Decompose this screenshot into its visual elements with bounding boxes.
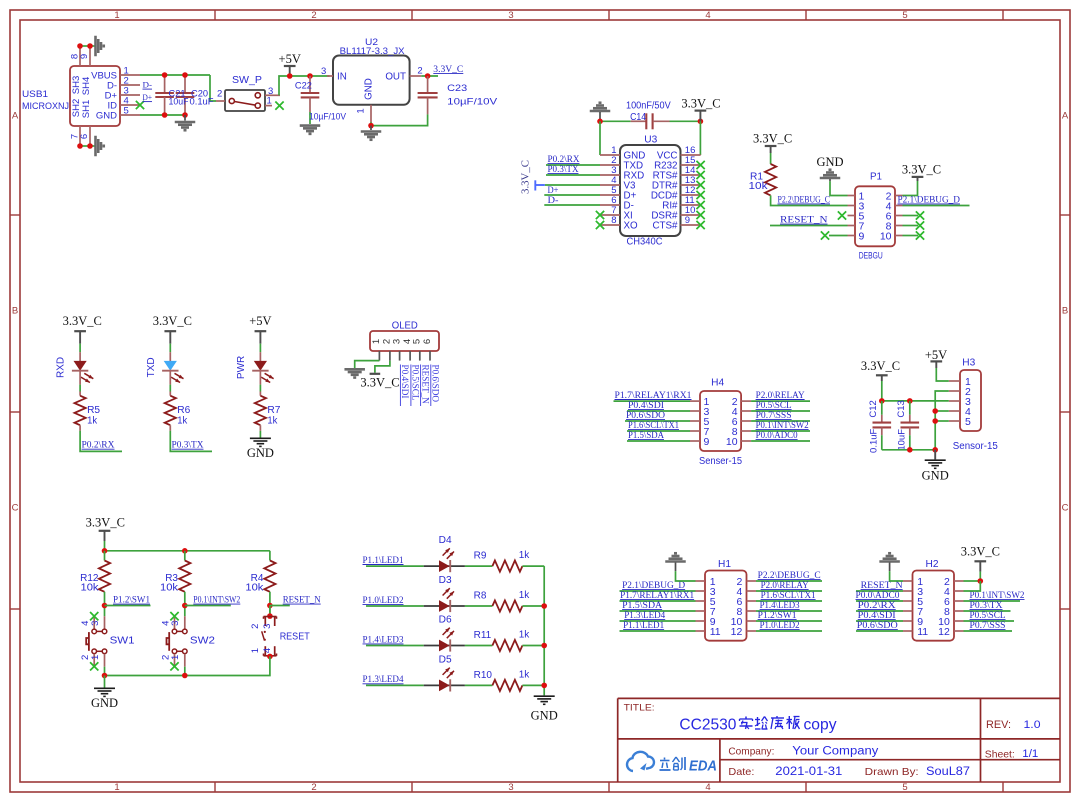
svg-text:C12: C12 xyxy=(868,400,879,417)
U3 pin 10 DSR# xyxy=(681,214,701,216)
svg-text:SW2: SW2 xyxy=(190,635,216,646)
LED TXD xyxy=(169,352,171,361)
svg-text:1: 1 xyxy=(267,96,272,107)
svg-text:11: 11 xyxy=(710,626,721,638)
wire net to LED D6 xyxy=(366,645,424,647)
wire H2 pin 3 xyxy=(856,590,903,592)
H4 pin 4 xyxy=(741,410,751,412)
frame row ticks right xyxy=(1060,214,1070,216)
svg-text:1: 1 xyxy=(250,648,261,653)
junction H2 pin2 xyxy=(978,578,984,584)
P1 pin 6 xyxy=(895,215,903,217)
svg-text:Sheet:: Sheet: xyxy=(985,749,1015,761)
junction pin7 bottom xyxy=(77,143,83,149)
wire net to LED D4 xyxy=(366,565,424,567)
svg-text:1: 1 xyxy=(114,10,119,21)
resistor R10 xyxy=(492,680,522,691)
wire H2 pin 10 xyxy=(964,620,1015,622)
OLED pin 3 xyxy=(399,351,401,361)
H4 pin 1 xyxy=(690,400,700,402)
svg-text:+5V: +5V xyxy=(279,52,301,66)
svg-text:R10: R10 xyxy=(474,670,493,681)
H1 pin 1 xyxy=(696,580,706,582)
frame column ticks bottom xyxy=(214,782,216,792)
svg-text:DEBGU: DEBGU xyxy=(859,250,883,261)
svg-text:2: 2 xyxy=(417,66,422,77)
wire R1 top xyxy=(770,153,772,164)
wire net stub P1.2\SW1 xyxy=(105,605,151,607)
wire H1 pin 9 xyxy=(620,620,696,622)
svg-text:R9: R9 xyxy=(474,551,487,562)
wire flag to LED TXD xyxy=(169,344,171,352)
H4 pin 7 xyxy=(690,430,700,432)
wire R4 bottom xyxy=(269,592,271,616)
no-connect X SW2 pin4 xyxy=(170,612,178,620)
SW_P pin 3 xyxy=(265,94,280,96)
U3 pin 15 R232 xyxy=(681,164,701,166)
H1 pin 10 xyxy=(747,620,757,622)
svg-text:Sensor-15: Sensor-15 xyxy=(953,441,998,452)
wire P1 pin7 RESET_N xyxy=(770,225,848,227)
wire H1 pin 3 xyxy=(620,590,696,592)
capacitor C12 xyxy=(881,401,883,415)
junction net P1.2\SW1 xyxy=(102,603,108,609)
OLED pin 1 xyxy=(378,351,380,361)
wire H2 pin 7 xyxy=(856,610,903,612)
svg-text:3: 3 xyxy=(508,782,513,793)
svg-text:2: 2 xyxy=(311,782,316,793)
wire SW_P pin3 to +5V rail xyxy=(279,76,330,95)
wire OLED pin2 to 3.3V_C xyxy=(375,361,390,373)
svg-text:B: B xyxy=(12,306,18,317)
OLED pin 5 xyxy=(419,351,421,361)
svg-text:1k: 1k xyxy=(177,415,188,426)
no-connect X P1 right y235.5 xyxy=(916,231,924,239)
svg-text:3.3V_C: 3.3V_C xyxy=(753,132,792,146)
svg-text:RESET: RESET xyxy=(280,631,310,642)
wire net to LED D3 xyxy=(366,605,424,607)
wire gnd to H1 pin1 xyxy=(676,571,696,581)
junction pin8 top xyxy=(77,43,83,49)
H2 pin 10 xyxy=(954,620,964,622)
wire U2 OUT to 3.3V_C xyxy=(421,75,438,77)
H2 pin 3 xyxy=(903,590,913,592)
wire H4 pin 9 xyxy=(627,440,690,442)
no-connect X U3 pin 15 xyxy=(696,161,704,169)
U2 pin 3 IN xyxy=(327,75,333,77)
switch SW2 bottom contacts xyxy=(172,649,177,654)
svg-text:A: A xyxy=(12,111,19,122)
svg-text:2: 2 xyxy=(250,624,261,629)
ground flag below C22 xyxy=(300,124,321,127)
resistor R11 xyxy=(492,640,522,651)
ground symbol below SW1 xyxy=(104,676,106,688)
svg-text:1.0: 1.0 xyxy=(1024,719,1041,731)
no-connect X on USB1 pin 4 ID xyxy=(136,101,144,109)
junction LED rail D5 xyxy=(541,683,547,689)
H1 pin 4 xyxy=(747,590,757,592)
power flag 3.3V_C above U3 VCC xyxy=(695,109,707,111)
SW_P pin 1 xyxy=(265,105,272,107)
resistor R9 xyxy=(492,561,522,572)
LED D6 xyxy=(424,645,465,647)
wire C23 bottom to U2 GND xyxy=(371,114,428,125)
switch SW1 pin4 lead xyxy=(93,616,95,629)
ground flag bottom shield xyxy=(94,136,97,157)
wire R11 to rail xyxy=(522,645,544,647)
H1 pin 2 xyxy=(747,580,757,582)
svg-text:3.3V_C: 3.3V_C xyxy=(961,544,1000,558)
H2 pin 2 xyxy=(954,580,964,582)
U2 pin 2 OUT xyxy=(410,75,422,77)
wire RESET_N stub xyxy=(270,605,290,607)
svg-text:D5: D5 xyxy=(439,654,452,665)
ground symbol below R7 xyxy=(250,437,271,439)
switch SW_P body xyxy=(225,90,265,111)
LED D4 xyxy=(424,565,465,567)
svg-text:D+: D+ xyxy=(548,186,559,196)
wire H2 pin 6 xyxy=(964,600,1021,602)
wire rail corner to R4 xyxy=(269,551,271,561)
svg-text:4: 4 xyxy=(705,782,710,793)
junction U2 GND xyxy=(368,123,374,129)
wire H1 pin 8 xyxy=(756,610,822,612)
wire +5V to H3 pin1 xyxy=(936,368,949,381)
svg-text:Date:: Date: xyxy=(728,766,754,778)
svg-text:1k: 1k xyxy=(519,669,531,680)
wire H1 pin 10 xyxy=(756,620,822,622)
junction gnd rail xyxy=(932,447,938,453)
U3 pin 14 RTS# xyxy=(681,174,701,176)
svg-text:D3: D3 xyxy=(439,575,452,586)
title block border xyxy=(617,698,619,782)
svg-text:REV:: REV: xyxy=(986,719,1011,731)
P1 pin 10 xyxy=(895,235,903,237)
USB1 pin 4 ID xyxy=(120,104,140,106)
switch SW2 pin2 lead xyxy=(174,654,176,666)
H2 pin 5 xyxy=(903,600,913,602)
no-connect X U3 pin 12 xyxy=(696,191,704,199)
svg-text:1/1: 1/1 xyxy=(1022,748,1038,760)
wire LED D6 to R11 xyxy=(465,645,493,647)
wire R12 bottom xyxy=(104,592,106,616)
capacitor C13 xyxy=(909,401,911,415)
svg-text:RESET_N: RESET_N xyxy=(420,365,430,405)
USB1 pin 7 xyxy=(79,126,81,146)
svg-text:CC2530: CC2530 xyxy=(679,717,736,734)
switch RESET actuator xyxy=(264,631,266,633)
svg-text:3.3V_C: 3.3V_C xyxy=(520,160,532,194)
H2 pin 4 xyxy=(954,590,964,592)
junction SW2 bottom xyxy=(182,673,188,679)
H3 pin 3 xyxy=(949,400,960,402)
wire P1 right stub y235.5 xyxy=(903,235,919,237)
svg-text:P1: P1 xyxy=(870,172,882,183)
resistor R12 xyxy=(99,561,110,592)
SW_P pin 2 xyxy=(216,100,225,102)
junction pin6 bottom xyxy=(87,143,93,149)
U3 pin 5 D+ xyxy=(600,194,620,196)
H2 pin 1 xyxy=(903,580,913,582)
svg-text:10k: 10k xyxy=(749,181,769,192)
wire 3.3V_C to P1 pin2 xyxy=(903,181,918,196)
ground flag left of C14 xyxy=(590,110,611,113)
switch SW_P contacts xyxy=(229,98,234,103)
USB1 pin 2 D- xyxy=(120,84,140,86)
U3 pin 1 GND xyxy=(600,154,620,156)
H4 pin 2 xyxy=(741,400,751,402)
svg-text:1: 1 xyxy=(170,655,181,660)
svg-text:5: 5 xyxy=(902,782,907,793)
H1 pin 12 xyxy=(747,630,757,632)
switch SW2 pin3 lead xyxy=(184,616,186,628)
svg-text:SH1: SH1 xyxy=(81,100,92,118)
wire H4 pin 4 xyxy=(751,410,810,412)
capacitor C22 xyxy=(309,76,311,93)
svg-text:1: 1 xyxy=(371,339,382,344)
wire U3 TXD xyxy=(546,164,600,166)
no-connect X U3 pin 10 xyxy=(696,211,704,219)
svg-text:1k: 1k xyxy=(267,415,278,426)
wire H4 pin 7 xyxy=(627,430,690,432)
resistor R4 xyxy=(264,561,275,592)
junction C14 left xyxy=(597,119,603,125)
wire VBUS rail xyxy=(140,74,210,76)
ground flag top shield xyxy=(94,36,97,57)
wire switch top rail xyxy=(105,550,270,552)
svg-text:1k: 1k xyxy=(87,415,98,426)
wire 3.3V rail to H3 pin3 xyxy=(882,400,949,402)
svg-text:SouL87: SouL87 xyxy=(926,766,970,778)
LED D3 xyxy=(424,605,465,607)
svg-text:1k: 1k xyxy=(519,630,531,641)
logo LCEDA cloud icon xyxy=(627,752,654,771)
svg-text:3: 3 xyxy=(170,621,181,626)
svg-text:1: 1 xyxy=(90,655,101,660)
svg-text:C: C xyxy=(1062,503,1069,514)
wire to U3 pin16 xyxy=(699,121,701,155)
H3 pin 1 xyxy=(949,380,960,382)
wire H3 pin2 down xyxy=(935,391,949,450)
svg-text:10: 10 xyxy=(880,230,892,242)
power flag 3.3V_C below OLED pin2 xyxy=(370,373,381,375)
wire U3 D- xyxy=(544,204,600,206)
wire P1 right stub y225.5 xyxy=(903,225,919,227)
svg-text:0.1uF: 0.1uF xyxy=(868,428,879,452)
no-connect X U3 pin 14 xyxy=(696,171,704,179)
wire H4 pin 2 xyxy=(751,400,810,402)
svg-text:9: 9 xyxy=(79,54,90,59)
svg-text:1k: 1k xyxy=(519,550,531,561)
svg-text:GND: GND xyxy=(91,696,118,710)
wire 3.3V_C down to C12 xyxy=(881,381,883,401)
wire R9 to rail xyxy=(522,565,544,567)
H4 pin 10 xyxy=(741,440,751,442)
wire R10 to rail xyxy=(522,684,544,686)
svg-text:6: 6 xyxy=(422,339,433,344)
junction R3 top xyxy=(182,548,188,554)
switch SW2 button xyxy=(168,632,170,651)
svg-text:3: 3 xyxy=(90,621,101,626)
wire H1 pin 6 xyxy=(756,600,822,602)
wire C14 rail left xyxy=(600,120,631,122)
wire R6 to net P0.3 xyxy=(170,431,212,452)
H2 pin 8 xyxy=(954,610,964,612)
U3 pin 6 D- xyxy=(600,204,620,206)
svg-text:+5V: +5V xyxy=(925,348,947,362)
OLED pin 2 xyxy=(389,351,391,361)
wire P1 pin9 stub xyxy=(829,235,848,237)
wire R4 to RESET switch xyxy=(269,606,271,617)
P1 pin 2 xyxy=(895,195,903,197)
junction RESET top xyxy=(267,613,273,619)
wire net to LED D5 xyxy=(366,684,424,686)
wire LED D5 to R10 xyxy=(465,684,493,686)
svg-text:9: 9 xyxy=(685,215,690,226)
svg-text:CH340C: CH340C xyxy=(627,236,663,247)
svg-text:3.3V_C: 3.3V_C xyxy=(902,163,941,177)
junction C21 top xyxy=(162,72,168,78)
junction SW1 bottom xyxy=(102,673,108,679)
svg-text:B: B xyxy=(1062,306,1068,317)
svg-text:GND: GND xyxy=(247,446,274,460)
P1 pin 3 xyxy=(848,205,856,207)
junction LED rail D6 xyxy=(541,643,547,649)
svg-text:XO: XO xyxy=(624,221,639,232)
LED PWR xyxy=(259,352,261,361)
junction net P0.1\INT\SW2 xyxy=(182,603,188,609)
svg-text:PWR: PWR xyxy=(236,356,247,379)
ground flag below OLED pin1 xyxy=(344,368,365,371)
svg-text:100nF/50V: 100nF/50V xyxy=(626,100,671,111)
U2 pin 1 GND xyxy=(370,105,372,122)
resistor R1 xyxy=(765,164,776,195)
wire flag to LED RXD xyxy=(79,344,81,352)
svg-text:3.3V_C: 3.3V_C xyxy=(86,515,125,529)
svg-text:11: 11 xyxy=(917,626,928,638)
U3 pin 16 VCC xyxy=(681,154,701,156)
svg-text:4: 4 xyxy=(705,10,710,21)
svg-text:U3: U3 xyxy=(644,134,657,145)
wire H1 pin 12 xyxy=(756,630,822,632)
ground flag below U2 xyxy=(370,126,372,130)
wire R5 to net P0.2 xyxy=(80,431,122,452)
no-connect X U3 pin 11 xyxy=(696,201,704,209)
svg-text:GND: GND xyxy=(816,155,843,169)
resistor R7 xyxy=(259,392,261,396)
svg-text:2021-01-31: 2021-01-31 xyxy=(775,766,842,778)
regulator U2 body xyxy=(333,56,410,105)
H1 pin 6 xyxy=(747,600,757,602)
U3 pin 9 CTS# xyxy=(681,224,701,226)
svg-text:H1: H1 xyxy=(718,559,731,570)
junction C23 top xyxy=(425,73,431,79)
USB1 pin 8 xyxy=(79,46,81,66)
wire net stub P0.1\INT\SW2 xyxy=(185,605,231,607)
svg-text:MICROXNJ: MICROXNJ xyxy=(22,101,69,112)
OLED pin 6 xyxy=(429,351,431,361)
svg-text:P0.4\SDI: P0.4\SDI xyxy=(400,365,410,399)
svg-text:OLED: OLED xyxy=(392,320,418,331)
svg-text:SW_P: SW_P xyxy=(232,75,262,86)
svg-text:GND: GND xyxy=(96,110,117,121)
no-connect X SW2 pin2 xyxy=(170,662,178,670)
svg-text:H2: H2 xyxy=(926,559,939,570)
svg-text:Your Company: Your Company xyxy=(792,745,878,757)
wire SW2 pin1 down xyxy=(184,667,186,676)
wire H4 pin 8 xyxy=(751,430,810,432)
wire VBUS corner down xyxy=(210,75,216,101)
H2 pin 7 xyxy=(903,610,913,612)
H1 pin 5 xyxy=(696,600,706,602)
H4 pin 3 xyxy=(690,410,700,412)
wire H2 pin4 up xyxy=(964,581,981,591)
header H1 body xyxy=(705,571,747,641)
no-connect X on SW_P pin 1 xyxy=(275,101,283,109)
svg-text:P0.6\SDO: P0.6\SDO xyxy=(431,365,441,403)
no-connect X P1 pin9 xyxy=(821,231,829,239)
svg-text:Drawn By:: Drawn By: xyxy=(865,766,919,778)
wire shield bottom xyxy=(80,145,95,147)
wire P1 right stub y215.5 xyxy=(903,215,919,217)
svg-text:3.3V_C: 3.3V_C xyxy=(360,376,399,390)
wire H1 pin 11 xyxy=(620,630,696,632)
switch SW1 bottom contacts xyxy=(92,649,97,654)
H1 pin 3 xyxy=(696,590,706,592)
wire U3 RXD xyxy=(546,174,600,176)
svg-text:H3: H3 xyxy=(962,357,975,368)
svg-text:1: 1 xyxy=(356,108,367,113)
header P1 body xyxy=(855,186,895,246)
LED D5 xyxy=(424,684,465,686)
wire 3.3V_C to H2 pin2 xyxy=(979,572,981,581)
USB1 pin 6 xyxy=(89,126,91,146)
resistor R8 xyxy=(492,600,522,611)
wire R3 bottom xyxy=(184,592,186,616)
wire shield top xyxy=(80,45,95,47)
H4 pin 9 xyxy=(690,440,700,442)
junction RESET bottom xyxy=(267,654,273,660)
switch SW2 pin4 lead xyxy=(174,616,176,629)
svg-text:3.3V_C: 3.3V_C xyxy=(63,314,102,328)
switch SW2 pin1 lead xyxy=(184,654,186,667)
H1 pin 8 xyxy=(747,610,757,612)
svg-text:10k: 10k xyxy=(245,583,264,594)
svg-text:+5V: +5V xyxy=(249,314,271,328)
LED RXD xyxy=(79,352,81,361)
wire U3 V3 xyxy=(545,184,600,186)
switch SW2 top contacts xyxy=(172,629,177,634)
svg-text:IN: IN xyxy=(337,71,347,82)
title hanzi 板 xyxy=(788,716,790,729)
svg-text:12: 12 xyxy=(731,626,743,638)
switch SW1 button xyxy=(88,632,90,651)
wire H2 pin 9 xyxy=(856,620,903,622)
P1 pin 1 xyxy=(848,195,856,197)
svg-text:EDA: EDA xyxy=(689,759,717,775)
no-connect X U3 pin 7 xyxy=(596,211,604,219)
connector USB1 body xyxy=(70,66,120,126)
svg-text:3.3V_C: 3.3V_C xyxy=(153,314,192,328)
H2 pin 11 xyxy=(903,630,913,632)
wire H2 pin 11 xyxy=(856,630,903,632)
svg-text:10: 10 xyxy=(726,436,738,448)
svg-text:A: A xyxy=(1062,111,1069,122)
logo hanzi 立 xyxy=(664,758,666,760)
svg-text:CTS#: CTS# xyxy=(652,221,678,232)
svg-text:8: 8 xyxy=(611,215,616,226)
P1 pin 7 xyxy=(848,225,856,227)
